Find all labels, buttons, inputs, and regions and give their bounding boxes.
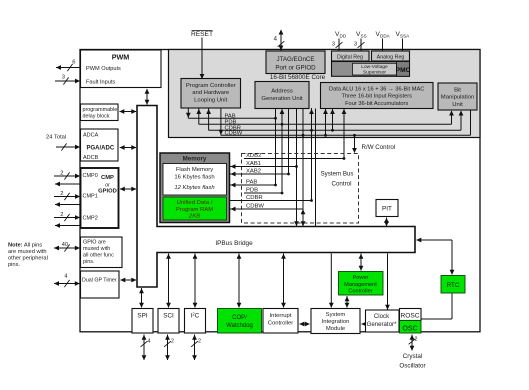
wire SPI pins with width 4 xyxy=(141,335,151,361)
block Interrupt Controller xyxy=(263,309,298,334)
svg-text:2: 2 xyxy=(198,339,201,345)
wire AGU tap v3 (XAB2 to memory) xyxy=(287,109,290,176)
block Power Management Controller xyxy=(339,272,384,296)
wire VDD with width 3 xyxy=(332,39,343,52)
wire JTAG pins with width 4 xyxy=(274,30,285,51)
wire bridge to System Integration Module xyxy=(329,254,334,308)
svg-text:Four 36-bit Accumulators: Four 36-bit Accumulators xyxy=(345,101,408,107)
block Flash Memory xyxy=(163,164,227,196)
svg-text:2: 2 xyxy=(415,337,418,343)
block Address Generation Unit xyxy=(255,82,309,109)
block I2C xyxy=(185,309,206,334)
svg-text:Crystal: Crystal xyxy=(403,353,423,360)
label RESET (active low) xyxy=(191,31,213,39)
wire XAB1 memory bus xyxy=(230,164,297,169)
svg-text:2: 2 xyxy=(171,339,174,345)
svg-text:RESET: RESET xyxy=(191,31,213,38)
svg-text:Oscillator: Oscillator xyxy=(399,362,425,369)
wire PAB drop from Program Controller xyxy=(186,108,191,118)
svg-text:Low-Voltage: Low-Voltage xyxy=(361,64,388,70)
svg-text:and Hardware: and Hardware xyxy=(192,90,230,96)
wire CDBW core bus row xyxy=(219,108,471,135)
chip outer boundary xyxy=(80,50,480,332)
svg-text:CMP: CMP xyxy=(101,175,114,181)
wire AGU tap v5 (CDBW / to IPBus Bridge) xyxy=(301,109,306,227)
svg-text:Dual GP Timer: Dual GP Timer xyxy=(82,278,117,284)
svg-text:Looping Unit: Looping Unit xyxy=(194,97,227,103)
svg-text:pins.: pins. xyxy=(83,259,94,265)
svg-text:40: 40 xyxy=(62,242,68,248)
wire ADC to channel xyxy=(120,145,137,150)
svg-text:DD: DD xyxy=(340,34,347,39)
block COP/Watchdog xyxy=(218,309,262,334)
label VDD pin xyxy=(335,31,347,39)
svg-text:Interrupt: Interrupt xyxy=(270,313,292,319)
svg-text:Generator*: Generator* xyxy=(367,321,397,328)
block ROSC xyxy=(400,309,422,321)
wire AGU tap v6 (CDBR to memory) xyxy=(309,108,314,202)
wire R/W Control from CDBW to System Bus Control xyxy=(352,134,357,153)
block SPI xyxy=(132,309,153,334)
svg-text:System Bus: System Bus xyxy=(320,171,353,178)
svg-text:CMP2: CMP2 xyxy=(83,216,98,222)
svg-text:all other func: all other func xyxy=(83,253,114,259)
wire CMP to channel xyxy=(120,187,137,192)
svg-text:SPI: SPI xyxy=(137,312,147,319)
svg-text:are muxed with: are muxed with xyxy=(8,249,47,255)
svg-text:Bit: Bit xyxy=(454,87,461,93)
wire Data ALU tap XDB2 to memory xyxy=(342,108,347,160)
svg-text:muxed with: muxed with xyxy=(83,246,110,252)
wire Dual GP Timer to channel xyxy=(120,278,136,283)
svg-text:PMC: PMC xyxy=(396,67,411,74)
svg-text:PAB: PAB xyxy=(246,179,257,185)
wire Interrupt Controller to SIM xyxy=(299,322,310,327)
block programmable delay block xyxy=(81,104,119,121)
wire CMP2 output xyxy=(55,223,81,228)
wire VSS with width 3 xyxy=(354,39,365,52)
svg-text:PWM Outputs: PWM Outputs xyxy=(86,66,121,72)
block Clock Generator xyxy=(366,310,400,332)
wire AGU tap v1 (PAB to memory) xyxy=(274,109,277,187)
wire SCI pins with width 2 xyxy=(164,335,174,361)
block GPIO note box xyxy=(81,237,123,268)
svg-text:SS: SS xyxy=(361,34,367,39)
svg-text:Clock: Clock xyxy=(374,313,390,320)
block PIT xyxy=(376,200,398,217)
block PWM xyxy=(81,50,162,88)
svg-text:SSA: SSA xyxy=(400,34,410,39)
svg-text:3: 3 xyxy=(62,75,65,81)
svg-text:other peripheral: other peripheral xyxy=(8,256,48,262)
svg-text:DDA: DDA xyxy=(380,34,391,39)
svg-text:Manipulation: Manipulation xyxy=(441,95,474,101)
wire bridge to Power Management Controller xyxy=(359,254,364,271)
wire I2C pins with width 2 xyxy=(191,335,201,361)
wire CMP1 input with width 2 xyxy=(54,191,81,200)
wire PMC to SIM xyxy=(345,296,350,308)
wire XAB2 memory bus xyxy=(230,172,289,177)
wire CMP0 input with width 2 xyxy=(54,171,81,180)
svg-text:Three 16-bit Input Registers: Three 16-bit Input Registers xyxy=(341,94,412,100)
svg-text:Controller: Controller xyxy=(348,288,372,294)
wire crystal pins with width 2 xyxy=(409,335,418,351)
svg-text:PDB: PDB xyxy=(246,187,258,193)
svg-text:Data ALU 16 x 16 + 36 → 36-Bit: Data ALU 16 x 16 + 36 → 36-Bit MAC xyxy=(329,86,424,92)
svg-text:pins.: pins. xyxy=(8,262,20,268)
svg-text:XAB1: XAB1 xyxy=(246,161,261,167)
wire AGU tap v4 (XAB1 / to IPBus Bridge) xyxy=(294,109,299,227)
svg-text:Program Controller: Program Controller xyxy=(186,83,236,89)
svg-text:CDBR: CDBR xyxy=(246,195,263,201)
wire PDB core bus row xyxy=(196,108,454,124)
svg-text:System: System xyxy=(326,312,346,318)
56800E core block background xyxy=(169,50,481,138)
label VSS pin xyxy=(356,31,367,39)
svg-text:3: 3 xyxy=(332,42,335,48)
svg-text:or: or xyxy=(105,182,110,188)
svg-text:Fault Inputs: Fault Inputs xyxy=(86,80,115,86)
block Program Controller and Hardware Looping Unit xyxy=(181,79,241,109)
svg-text:CMP1: CMP1 xyxy=(83,194,98,200)
wire bridge to COP xyxy=(237,254,242,308)
block Memory container xyxy=(160,153,230,223)
svg-text:Generation Unit: Generation Unit xyxy=(261,96,303,102)
svg-text:IPBus Bridge: IPBus Bridge xyxy=(215,240,253,247)
label VDDA pin xyxy=(376,31,391,39)
wire Data ALU tap to IPBus Bridge xyxy=(315,109,317,229)
wire CMP0 output xyxy=(55,182,81,187)
svg-text:Analog Reg: Analog Reg xyxy=(377,54,405,60)
svg-text:Watchdog: Watchdog xyxy=(226,323,253,329)
block Low-Voltage Supervisor xyxy=(353,63,397,75)
block Digital Reg xyxy=(332,51,370,61)
svg-text:XDB2: XDB2 xyxy=(246,153,261,159)
wire CDBR memory bus xyxy=(230,200,312,202)
svg-text:Power: Power xyxy=(353,275,369,281)
svg-text:4: 4 xyxy=(148,339,151,345)
svg-text:Flash Memory: Flash Memory xyxy=(176,167,213,173)
svg-text:Unified Data /: Unified Data / xyxy=(177,200,213,206)
block OSC xyxy=(400,321,422,334)
svg-text:GPIOD: GPIOD xyxy=(98,188,117,194)
wire CMP2 input with width 2 xyxy=(54,212,81,221)
wire Fault inputs with width 3 xyxy=(55,75,81,85)
block RTC xyxy=(441,276,465,294)
wire VSSA xyxy=(402,39,404,52)
wire PIT to bridge xyxy=(384,218,389,227)
svg-text:Note: All pins: Note: All pins xyxy=(8,242,42,248)
wire CDBW memory bus xyxy=(230,207,304,212)
wire bridge to SCI xyxy=(166,254,171,308)
svg-text:2: 2 xyxy=(60,171,63,177)
svg-text:16 Kbytes flash: 16 Kbytes flash xyxy=(174,174,214,180)
svg-text:COP/: COP/ xyxy=(232,315,247,321)
wire RTC to ROSC xyxy=(422,294,453,320)
wire bridge to Interrupt Controller xyxy=(281,254,286,308)
wire PDB memory bus xyxy=(244,192,282,194)
wire delay block to channel xyxy=(119,109,136,114)
svg-text:Management: Management xyxy=(344,282,377,288)
block IPBus Bridge with peripheral channel xyxy=(137,106,415,288)
svg-text:CDBW: CDBW xyxy=(225,131,243,137)
block JTAG/EOnCE Port or GPIOD xyxy=(266,51,325,74)
svg-text:R/W Control: R/W Control xyxy=(362,144,396,151)
svg-text:JTAG/EOnCE: JTAG/EOnCE xyxy=(276,56,314,63)
svg-text:CMP0: CMP0 xyxy=(83,173,98,179)
svg-text:CDBW: CDBW xyxy=(246,203,264,209)
wire Dual GP Timer pins with width 4 xyxy=(54,274,80,288)
svg-text:2: 2 xyxy=(60,212,63,218)
svg-text:SCI: SCI xyxy=(163,312,174,319)
block Data ALU xyxy=(321,83,434,109)
wire CDBR core bus row xyxy=(206,108,463,130)
svg-text:programmable: programmable xyxy=(83,107,118,113)
svg-text:Address: Address xyxy=(271,89,293,95)
block Dual GP Timer xyxy=(81,271,120,298)
block CMP (CMP0 CMP1 CMP2 / CMP or GPIOD) xyxy=(81,168,119,228)
svg-text:OSC: OSC xyxy=(402,325,417,332)
svg-text:XAB2: XAB2 xyxy=(246,168,261,174)
svg-text:2KB: 2KB xyxy=(188,214,200,220)
svg-text:12 Kbytes flash: 12 Kbytes flash xyxy=(174,185,214,191)
wire Data ALU tap CDBW arrow xyxy=(323,108,328,137)
svg-text:delay block: delay block xyxy=(83,114,110,120)
wire ADC inputs 24 total xyxy=(56,143,81,150)
block Bit Manipulation Unit xyxy=(438,83,477,110)
svg-text:Port or GPIOD: Port or GPIOD xyxy=(275,65,316,72)
svg-text:Unit: Unit xyxy=(452,102,463,108)
wire PAB memory bus xyxy=(230,183,276,188)
wire XDB2 memory bus xyxy=(244,158,344,160)
wire AGU tap v2 (PDB to memory) xyxy=(280,108,285,194)
wire bridge to RTC xyxy=(416,238,454,275)
svg-text:RTC: RTC xyxy=(447,282,460,289)
svg-text:24 Total: 24 Total xyxy=(46,134,66,140)
svg-text:ADCA: ADCA xyxy=(83,133,99,139)
wire PAB core bus row xyxy=(188,117,275,119)
svg-text:Control: Control xyxy=(332,180,352,187)
block PMC xyxy=(396,62,411,77)
block ADC (ADCA PGA/ADC ADCB) xyxy=(81,129,119,161)
svg-text:2: 2 xyxy=(60,191,63,197)
wire Clock Generator to SIM xyxy=(361,322,366,327)
note text all pins muxed xyxy=(8,242,48,268)
svg-text:16-Bit 56800E Core: 16-Bit 56800E Core xyxy=(270,74,326,81)
block System Integration Module xyxy=(311,309,360,334)
svg-text:PGA/ADC: PGA/ADC xyxy=(87,146,115,152)
svg-text:Program RAM: Program RAM xyxy=(176,207,213,213)
wire PWM outputs with width 6 xyxy=(56,60,81,72)
svg-text:Digital Reg: Digital Reg xyxy=(337,54,363,60)
svg-text:6: 6 xyxy=(72,60,75,66)
svg-text:GPIO are: GPIO are xyxy=(83,240,106,246)
svg-text:3: 3 xyxy=(354,42,357,48)
wire VDDA xyxy=(382,39,384,52)
wire bridge to I2C xyxy=(193,254,198,308)
wire PWM to peripheral channel xyxy=(145,89,150,105)
svg-text:Integration: Integration xyxy=(322,319,350,325)
wire GPIO pins with width 40 xyxy=(54,242,80,252)
wire RESET to Program Controller xyxy=(200,38,205,80)
label VSSA pin xyxy=(396,31,411,39)
svg-text:Module: Module xyxy=(326,326,346,332)
svg-text:PIT: PIT xyxy=(382,206,392,213)
dashed box System Bus Control xyxy=(242,154,359,224)
wire bridge to Clock Generator xyxy=(385,254,390,310)
svg-text:I2C: I2C xyxy=(191,312,200,320)
svg-text:PWM: PWM xyxy=(112,53,130,62)
svg-text:Controller: Controller xyxy=(268,320,294,326)
wire Data ALU tap CDBR arrow xyxy=(330,108,335,132)
svg-text:4: 4 xyxy=(64,274,67,280)
block Unified Data / Program RAM xyxy=(163,197,227,220)
wire bridge to SPI xyxy=(139,288,144,308)
wire CMP1 output xyxy=(55,202,81,207)
block PMC container xyxy=(332,62,410,77)
svg-text:ROSC: ROSC xyxy=(400,312,419,319)
svg-text:Supervisor: Supervisor xyxy=(363,70,386,76)
svg-text:Memory: Memory xyxy=(183,156,207,163)
block Analog Reg xyxy=(372,51,410,61)
svg-text:ADCB: ADCB xyxy=(83,155,99,161)
block SCI xyxy=(158,309,179,334)
